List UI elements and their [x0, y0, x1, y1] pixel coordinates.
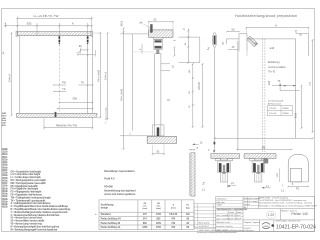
small dims right of carriage: [167, 39, 176, 102]
wall edge right: [92, 36, 94, 113]
svg-text:►: ►: [95, 213, 97, 216]
svg-text:Ersatz für / repl. for: Ersatz für / repl. for: [217, 225, 233, 228]
mini table DIN: [267, 105, 292, 115]
roller carriage detail X: [250, 158, 267, 182]
door right edge: [87, 45, 89, 114]
GEZE logo: [262, 223, 271, 229]
vertical dim 58 and FH=LH+65 for section: [121, 20, 125, 150]
svg-text:04.18b: 04.18b: [2, 148, 8, 151]
dim 7 right of floor bar: [105, 108, 108, 125]
svg-text:GEZE GmbH – D-71229 Leonberg: GEZE GmbH – D-71229 Leonberg: [259, 197, 288, 200]
soffit line: [133, 51, 154, 53]
bore dim chain upper: [187, 29, 189, 64]
svg-text:1700: 1700: [156, 213, 162, 216]
svg-text:Perlan SoftStop M: Perlan SoftStop M: [101, 222, 120, 225]
svg-text:(mm): (mm): [156, 208, 161, 210]
svg-text:øD: øD: [276, 173, 279, 176]
floor level line: [120, 135, 152, 137]
svg-text:Bl.1/1: Bl.1/1: [2, 125, 6, 127]
svg-text:350: 350: [27, 22, 32, 26]
svg-text:design: design: [101, 207, 109, 210]
rail end caps: [16, 31, 18, 36]
svg-text:bei Wandangriff: bei Wandangriff: [268, 100, 284, 103]
svg-text:A: A: [275, 24, 277, 28]
svg-text:1250: 1250: [142, 226, 148, 229]
svg-text:FS: FS: [296, 187, 300, 190]
svg-text:GH=LH: GH=LH: [105, 72, 108, 81]
revision strip left edge: [2, 148, 8, 209]
title block left-part row lines: [216, 197, 260, 228]
extension ticks through rail: [17, 32, 87, 36]
extension lines above rail: [6, 17, 92, 32]
right step profile: [296, 34, 309, 56]
left rotated note block: [2, 112, 7, 127]
svg-text:KarJ: KarJ: [237, 214, 241, 217]
svg-text:Y: Y: [4, 22, 6, 26]
note bei Wandanschluss: [268, 100, 284, 106]
top track rail (hatched): [17, 32, 93, 36]
svg-text:121x15: 121x15: [269, 113, 277, 115]
left vertical dim GH=LH: [9, 32, 13, 116]
svg-text:FB: FB: [262, 145, 266, 149]
scale stamp 1:20: [266, 211, 276, 218]
svg-text:Reinhold-Vöster-Straße 21-29 –: Reinhold-Vöster-Straße 21-29 – D-71229 L…: [259, 202, 312, 205]
svg-text:FH=LH+65: FH=LH+65: [121, 88, 124, 101]
svg-text:ø13: ø13: [270, 46, 275, 50]
svg-text:Perlan 140: Perlan 140: [291, 212, 308, 216]
svg-text:b: b: [194, 226, 195, 228]
bottom guide arch detail: [288, 154, 308, 182]
door centerline (dashed): [58, 45, 60, 114]
revision grid: [194, 204, 216, 229]
svg-text:DIN46: DIN46: [282, 113, 289, 115]
svg-text:TW: TW: [62, 80, 67, 84]
Z detail strip dims 15 and 8: [189, 142, 203, 151]
svg-text:FH=LH+65: FH=LH+65: [97, 69, 100, 82]
svg-text:11.14b: 11.14b: [2, 185, 8, 188]
svg-text:05.14b: 05.14b: [2, 190, 8, 193]
leaf A top edge: [227, 38, 239, 40]
Z detail strip (door edge 1:1, hatched): [191, 153, 195, 196]
corner dim with arrow: [280, 83, 300, 90]
dimension <=70: [77, 50, 96, 57]
dimension A (woodprep): [246, 24, 310, 34]
svg-text:c: c: [194, 223, 195, 225]
title block frame: [216, 197, 315, 232]
ceiling line left: [120, 33, 148, 35]
leaf B left edge (short): [246, 51, 248, 56]
svg-text:GEZE: GEZE: [263, 226, 269, 228]
svg-text:30.03.17: 30.03.17: [229, 218, 236, 220]
title block left-part texts: [217, 197, 261, 231]
svg-text:1:20: 1:20: [268, 213, 274, 217]
dimension row Y / 350 / A: [4, 22, 93, 27]
svg-text:A: A: [72, 22, 74, 26]
svg-text:At Wand und: At Wand und: [268, 102, 281, 105]
svg-text:Maße geänd.: Maße geänd.: [199, 223, 211, 225]
svg-text:bldg. type: bldg. type: [217, 201, 225, 204]
svg-text:Standard: Standard: [101, 213, 111, 216]
svg-text:gepr. / checked: gepr. / checked: [217, 217, 230, 220]
roller carriage detail Y: [215, 158, 232, 182]
company address block: [259, 197, 317, 208]
svg-text:Perlan SoftStop 4L: Perlan SoftStop 4L: [101, 226, 122, 229]
note Einfraesung: [268, 61, 286, 74]
svg-text:ø35: ø35: [268, 80, 271, 85]
svg-text:Perlan SoftStop 44: Perlan SoftStop 44: [101, 218, 122, 221]
svg-text:FB=DW: FB=DW: [104, 186, 113, 189]
svg-text:Weitergabe u. Vervielfältigung: Weitergabe u. Vervielfältigung nur mit G…: [259, 204, 317, 207]
dimension TW / TK labels: [53, 80, 93, 92]
detail X ceiling bar (hatched): [244, 154, 276, 159]
bore dim chain lower: [192, 63, 194, 128]
svg-text:GH=LH: GH=LH: [9, 74, 12, 83]
leaf B right edge: [295, 39, 297, 138]
svg-text:Zeichnungsnr. / document no.: Zeichnungsnr. / document no.: [276, 219, 301, 222]
svg-text:Gewicht / weight: Gewicht / weight: [244, 200, 258, 203]
dim FS: [288, 186, 310, 191]
design table: [99, 200, 194, 230]
dim 17 under detail X: [262, 185, 271, 189]
svg-text:FB=DW+TK+TW: FB=DW+TK+TW: [56, 123, 77, 127]
svg-text:Darstellung / representation: Darstellung / representation: [104, 170, 135, 173]
copyright line: [197, 229, 254, 234]
svg-text:Gebäudeart: Gebäudeart: [217, 198, 227, 201]
notch cut: [239, 34, 247, 52]
dimension DW: [59, 97, 94, 104]
svg-text:Maßstab / scale: Maßstab / scale: [217, 221, 230, 224]
leaf B top edge: [247, 38, 296, 40]
svg-text:GH=LH: GH=LH: [199, 82, 201, 90]
dimension 90: [79, 44, 89, 52]
door left edge: [19, 36, 21, 113]
wall line: [132, 34, 134, 131]
svg-text:DW: DW: [73, 97, 78, 101]
softstop damper unit: [264, 159, 268, 163]
svg-text:TK: TK: [81, 80, 85, 84]
svg-text:recommendation: recommendation: [268, 66, 286, 69]
svg-text:A3: A3: [244, 206, 246, 209]
bottom floor bar (hatched): [17, 113, 97, 117]
roller carriage: [154, 40, 162, 50]
svg-text:09.12b: 09.12b: [2, 207, 8, 209]
svg-text:1700: 1700: [156, 226, 162, 229]
svg-text:Holzbearbeitung/wood preparati: Holzbearbeitung/wood preparation: [235, 14, 297, 18]
svg-text:(mm): (mm): [143, 208, 148, 210]
svg-text:(mm): (mm): [171, 207, 176, 209]
GH dim line: [202, 63, 204, 128]
leaf A right edge: [237, 41, 239, 151]
svg-text:29.03.17: 29.03.17: [229, 215, 236, 217]
svg-text:W = Bohrung Stangengriff / bor: W = Bohrung Stangengriff / bore hole han…: [11, 228, 58, 231]
svg-text:(kg): (kg): [186, 207, 190, 209]
carriage bolt 1: [59, 36, 61, 44]
dim line above floor bar: [57, 108, 94, 109]
track profile: [153, 37, 164, 39]
vertical dim GH=LH: [105, 32, 109, 120]
dimension FB: [236, 145, 292, 150]
lintel bottom line: [179, 62, 200, 64]
svg-text:≤70: ≤70: [77, 50, 82, 54]
svg-text:Bodenführung durchgehend: Bodenführung durchgehend: [104, 190, 136, 193]
detail marker Z ellipse: [213, 33, 217, 48]
detail Y ceiling bar (hatched): [211, 154, 240, 159]
note Darstellung: [104, 170, 136, 196]
abbreviation legend: [11, 170, 72, 231]
long top line of details: [215, 137, 313, 139]
milled slot (dashed pair): [262, 39, 264, 152]
mounting screw: [150, 24, 152, 33]
svg-text:12.04.16 KJ: 12.04.16 KJ: [199, 226, 209, 228]
leaf A left edge: [214, 48, 216, 151]
dimension LL+2xFB-TK-TW: [16, 14, 93, 19]
svg-text:Format: Format: [244, 203, 250, 206]
svg-text:Verwertung und Mitteilung sein: Verwertung und Mitteilung seines Inhalts…: [197, 231, 237, 234]
dimension 62: [148, 17, 174, 29]
ceiling mount block (hatched): [149, 30, 173, 37]
svg-text:Profil ≙ 5: Profil ≙ 5: [104, 176, 115, 180]
vertical dim FH=LH+65: [94, 32, 102, 118]
floor block (hatched): [147, 136, 176, 143]
svg-text:end-to-end bottom guidance: end-to-end bottom guidance: [104, 193, 136, 196]
bottom guide block: [55, 112, 57, 117]
lintel top line: [179, 36, 200, 38]
svg-text:10421-EP-70-024: 10421-EP-70-024: [276, 225, 316, 231]
dim TK: [272, 80, 296, 86]
projection symbol: [271, 224, 274, 227]
svg-text:FB-140: FB-140: [169, 213, 177, 216]
svg-text:Datum: Datum: [229, 211, 235, 214]
svg-text:1250: 1250: [156, 222, 162, 225]
dim 21 under detail Y: [227, 182, 236, 188]
svg-text:50±3: 50±3: [296, 112, 298, 118]
svg-text:58±1: 58±1: [121, 20, 124, 26]
svg-text:1:1: 1:1: [202, 188, 206, 192]
dimension FB=DW+TK+TW: [43, 118, 93, 130]
carriage bolt 2: [87, 36, 89, 44]
svg-text:FH: FH: [309, 82, 312, 86]
dimension 30: [152, 144, 165, 156]
guide profile rect: [290, 168, 301, 182]
svg-text:erst. / created: erst. / created: [217, 214, 229, 217]
svg-text:Name: Name: [237, 212, 242, 214]
svg-text:Objekt: Objekt: [217, 204, 223, 207]
svg-text:Y: Y: [282, 184, 284, 188]
svg-text:TK: TK: [277, 80, 280, 83]
svg-text:Einfräsung: Einfräsung: [268, 61, 280, 64]
drill hole 8 at 45deg (hatched): [247, 36, 258, 47]
svg-text:121x21: 121x21: [269, 108, 277, 110]
svg-text:LL+2xFB-TK-TW: LL+2xFB-TK-TW: [34, 14, 59, 18]
revision grid entries: [194, 223, 210, 229]
door leaf (section): [155, 54, 161, 136]
lintel edge: [199, 37, 201, 63]
dimension 50: [226, 28, 239, 33]
svg-text:DIN46: DIN46: [282, 108, 289, 110]
svg-text:Freigabe / approval: Freigabe / approval: [244, 221, 261, 224]
hanger bolt: [156, 50, 159, 54]
svg-text:TK: TK: [62, 87, 66, 91]
floor guide pin: [152, 125, 164, 136]
svg-text:TK+70: TK+70: [268, 71, 276, 74]
